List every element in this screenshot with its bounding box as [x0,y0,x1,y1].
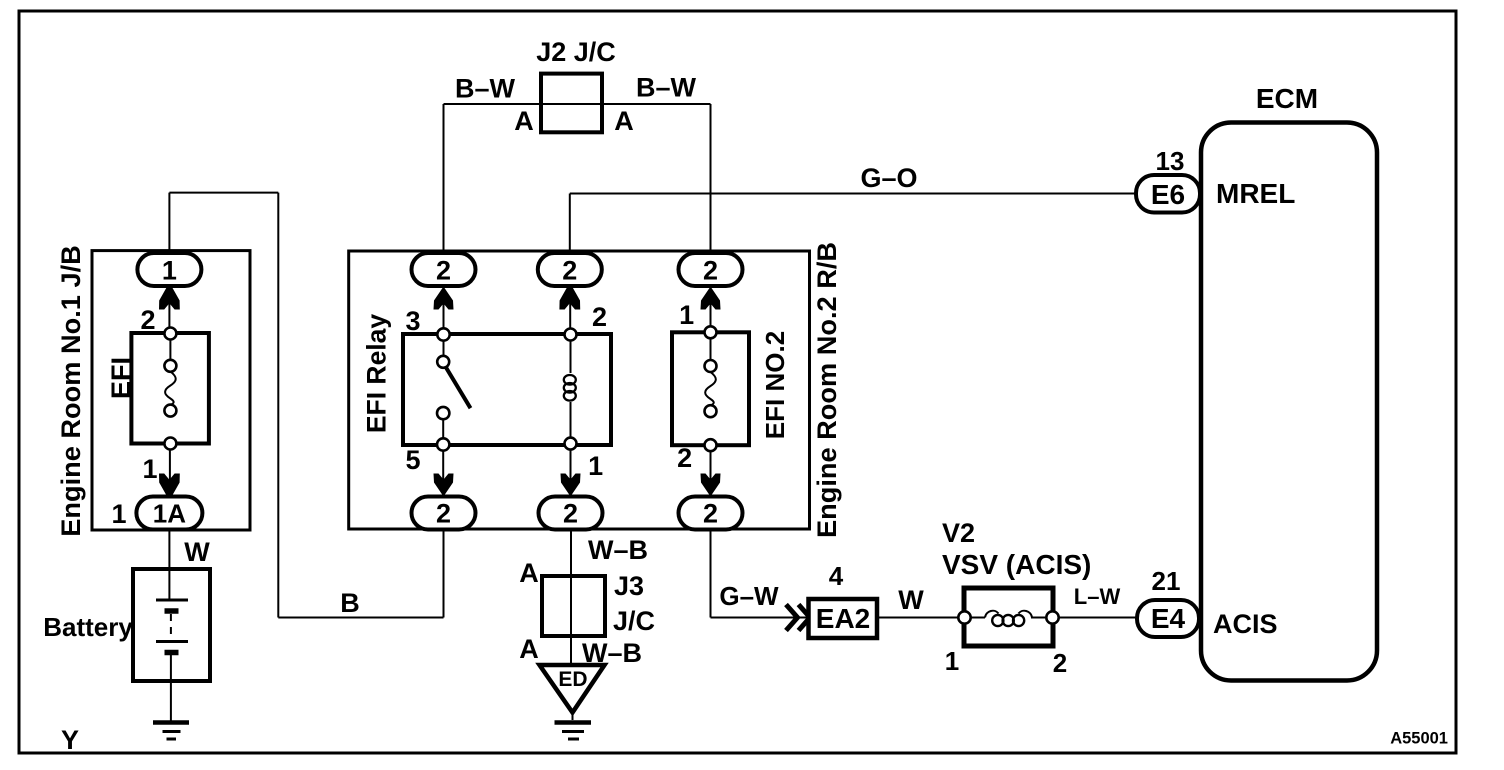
svg-text:1: 1 [162,256,177,286]
svg-text:1: 1 [588,451,603,481]
svg-text:EFI Relay: EFI Relay [362,314,392,434]
svg-text:EFI: EFI [106,357,136,399]
svg-text:1A: 1A [153,499,186,529]
wire: J2 horizontal through junction [444,103,711,105]
svg-text:1: 1 [142,454,157,484]
svg-text:B: B [340,588,360,618]
svg-text:A: A [519,634,539,664]
fuse EFI [131,328,209,450]
svg-text:G–O: G–O [860,163,917,193]
wire: coil oval 2 to pin 2 [569,286,571,334]
junction connector J2 J/C [541,74,602,133]
ECM box [1201,123,1377,681]
connector oval 2 (relay coil bottom) [539,497,603,530]
svg-text:EFI NO.2: EFI NO.2 [760,331,790,439]
wire: J/B fuse output to B riser (horizontal) [169,192,278,194]
svg-text:B–W: B–W [636,73,697,103]
wire: 1A to battery [168,529,170,600]
svg-text:Engine Room No.1 J/B: Engine Room No.1 J/B [55,245,86,537]
svg-text:5: 5 [405,445,420,475]
wire: EA2 to VSV pin1 [877,617,959,619]
svg-text:V2: V2 [942,518,975,548]
svg-text:W: W [184,537,210,567]
svg-text:1: 1 [945,646,959,676]
up arrow (J/B) [159,287,180,310]
svg-text:4: 4 [829,561,844,591]
svg-text:2: 2 [1053,648,1067,678]
svg-text:2: 2 [140,305,155,335]
svg-text:L–W: L–W [1074,584,1121,609]
connector oval 2 (EFI NO.2 bottom) [679,497,743,530]
wire: G-O to ECM E6 [570,193,1136,195]
svg-text:1: 1 [111,499,126,529]
svg-text:Engine Room No.2 R/B: Engine Room No.2 R/B [811,242,842,538]
svg-text:2: 2 [703,499,718,529]
shield chevrons [786,605,798,631]
down arrow (relay coil) [561,474,581,497]
wire: battery to ground [170,655,172,722]
svg-text:13: 13 [1156,146,1185,176]
connector oval 1A [136,497,202,530]
svg-text:VSV (ACIS): VSV (ACIS) [942,549,1091,580]
junction box Engine Room No.1 J/B [92,251,250,530]
wire: EFI NO.2 pin 2 to bottom oval [710,445,712,496]
svg-text:21: 21 [1152,566,1181,596]
wire: oval 1 up to horizontal [168,193,170,254]
connector E4 [1137,600,1199,637]
wire: relay oval 2 to contact pin 3 [443,286,445,334]
wire: coil pin 1 to bottom oval 2 [570,444,572,497]
svg-text:A55001: A55001 [1390,730,1448,748]
connector oval 2 (EFI NO.2 top) [679,253,743,286]
svg-text:G–W: G–W [719,581,779,611]
wire: EFI NO.2 oval to pin 1 [710,286,712,332]
down arrow (J/B) [159,474,180,497]
wire: B riser vertical [277,193,279,618]
up arrow (relay coil) [559,287,580,310]
up arrow (EFI NO.2) [701,287,721,310]
svg-text:A: A [519,558,539,588]
svg-text:Y: Y [61,725,79,755]
connector oval 2 (relay contact top) [412,253,476,286]
svg-text:2: 2 [703,256,718,286]
wire: relay coil bottom to J3 and ED [570,529,572,665]
ground (battery) [153,723,189,740]
svg-text:W–B: W–B [588,535,648,565]
svg-text:ED: ED [558,668,587,691]
svg-text:MREL: MREL [1216,178,1295,209]
svg-text:E6: E6 [1151,179,1185,210]
wire: G-W to EA2 [711,617,809,619]
svg-text:Battery: Battery [43,612,133,642]
connector oval 2 (relay coil top) [538,253,602,286]
connector oval 2 (relay contact bottom) [412,497,476,530]
connector oval 1 (J/B top) [137,253,201,286]
wire: J2 left leg down to relay oval 2 [443,104,445,253]
svg-text:2: 2 [677,443,692,473]
svg-text:EA2: EA2 [816,603,870,634]
junction connector J3 J/C [542,576,605,636]
battery B [133,569,210,681]
wire: B horizontal to relay contact [278,617,443,619]
svg-text:A: A [614,106,634,136]
wire: ED apex to ground [572,713,574,721]
svg-text:J3: J3 [614,571,644,601]
wire: relay contact bottom oval down [443,529,445,618]
relay box Engine Room No.2 R/B [349,251,810,529]
ground (ED) [555,723,592,740]
svg-text:ECM: ECM [1256,83,1318,114]
fuse EFI NO.2 [672,326,749,451]
wire: oval 1 to EFI fuse [168,286,170,334]
svg-text:2: 2 [436,256,451,286]
ground point ED triangle [540,665,605,713]
svg-text:2: 2 [562,256,577,286]
VSV V2 solenoid [958,588,1058,646]
up arrow (relay contact) [434,287,454,310]
svg-text:J/C: J/C [613,606,655,636]
wire: contact pin 5 to bottom oval 2 [442,445,444,497]
svg-text:W: W [898,585,924,615]
down arrow (relay contact) [434,474,454,497]
wire: EFI fuse to oval 1A [169,444,171,497]
wire: EFI NO.2 bottom oval down [710,529,712,618]
svg-text:1: 1 [679,300,694,330]
down arrow (EFI NO.2) [701,474,721,497]
svg-text:2: 2 [436,499,451,529]
svg-text:E4: E4 [1151,603,1186,634]
svg-text:2: 2 [563,499,578,529]
svg-text:B–W: B–W [455,74,516,104]
connector E6 [1136,175,1200,213]
wire: VSV pin2 to E4 [1057,617,1137,619]
svg-text:2: 2 [592,302,607,332]
svg-text:A: A [514,106,534,136]
relay EFI Relay [403,328,611,450]
connector EA2 [809,599,878,638]
wire: relay coil top oval up [569,194,571,254]
svg-text:ACIS: ACIS [1213,609,1278,639]
svg-text:J2 J/C: J2 J/C [536,37,616,67]
svg-text:3: 3 [405,306,420,336]
wire: J2 right leg down to EFI NO.2 oval 2 [710,104,712,253]
